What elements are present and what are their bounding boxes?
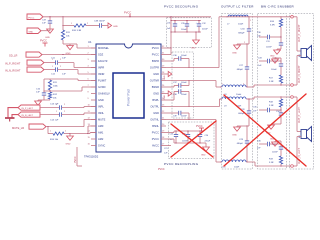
- svg-text:GND: GND: [232, 135, 237, 137]
- snubber cell 4 (above OUT_N_LEFT): [280, 165, 281, 166]
- speaker LS2: [301, 130, 307, 139]
- svg-text:100nF: 100nF: [182, 141, 188, 143]
- svg-text:1uF: 1uF: [36, 92, 40, 94]
- svg-text:GND: GND: [28, 31, 33, 33]
- ground (decoupling top): [195, 32, 197, 40]
- svg-text:GND: GND: [201, 155, 206, 157]
- svg-text:10uH: 10uH: [234, 167, 240, 169]
- wire OUTNL riser: [166, 119, 216, 121]
- speaker box: [290, 14, 314, 170]
- svg-text:100nF: 100nF: [181, 116, 187, 118]
- ground (snubber4): [274, 141, 276, 142]
- wire: [58, 69, 78, 71]
- wire: [44, 78, 78, 80]
- wire: [44, 69, 55, 71]
- svg-text:100nF: 100nF: [181, 82, 187, 84]
- wire: [297, 55, 301, 57]
- bootstrap cap box: [172, 52, 194, 118]
- inductor L10: [220, 161, 221, 162]
- wire: [38, 99, 50, 101]
- wire: [248, 17, 250, 29]
- svg-text:1uF: 1uF: [62, 58, 66, 60]
- svg-text:3.3R: 3.3R: [269, 105, 274, 107]
- inductor L7: [226, 16, 227, 17]
- resistor R12 20k: [48, 92, 51, 99]
- PVCC decoupling box (top): [167, 18, 212, 48]
- svg-text:GND: GND: [164, 75, 166, 80]
- wire PVCC rail: [63, 16, 211, 18]
- svg-text:PVCC: PVCC: [28, 17, 34, 19]
- svg-text:PVCC: PVCC: [158, 168, 165, 171]
- svg-text:PVCC: PVCC: [40, 40, 47, 43]
- PVCC decoupling box (bottom): [169, 122, 215, 159]
- node R10 junction: [62, 25, 63, 26]
- wire: [40, 114, 59, 116]
- ground (R14): [69, 134, 71, 136]
- ground (snubber3): [270, 124, 272, 125]
- capacitor C21 (AVCC): [166, 145, 171, 147]
- wire OUT_P_RIGHT: [222, 16, 249, 18]
- svg-text:IN_P_LEFT: IN_P_LEFT: [22, 108, 34, 110]
- wire OUTPL riser: [166, 106, 220, 108]
- wire: [62, 17, 64, 30]
- wire PVCC pins to decoupling: [166, 47, 171, 49]
- wire: [43, 16, 63, 18]
- svg-text:OUTPUT LC FILTER: OUTPUT LC FILTER: [221, 5, 254, 9]
- port GND (top-left): [27, 28, 41, 34]
- wire: [280, 27, 282, 43]
- svg-text:BW C-RC SNUBBER: BW C-RC SNUBBER: [261, 5, 295, 9]
- svg-text:OUT_N_RIGHT: OUT_N_RIGHT: [298, 65, 301, 83]
- wire: [62, 40, 64, 44]
- op-amp U1 TPA3116D2 body: [96, 44, 161, 152]
- svg-text:C13 1uF: C13 1uF: [50, 104, 59, 106]
- resistor R10: [74, 24, 86, 27]
- svg-text:PVCC DECOUPLING: PVCC DECOUPLING: [164, 162, 199, 166]
- svg-text:100nF: 100nF: [181, 55, 187, 57]
- svg-text:100nF: 100nF: [272, 152, 278, 154]
- ground (R11/MODSEL): [69, 44, 71, 46]
- ground (snubber1): [276, 49, 278, 50]
- wire OUT_N_LEFT: [247, 161, 255, 163]
- svg-text:C38 100nF: C38 100nF: [94, 21, 105, 23]
- wire SDZ: [42, 54, 96, 56]
- node terminal (P left): [291, 96, 294, 99]
- resistor R11: [61, 30, 64, 40]
- svg-text:680pF: 680pF: [238, 33, 245, 35]
- U1 power pad: [113, 73, 144, 118]
- node terminal (N right): [291, 84, 294, 87]
- port IN_N_LEFT: [18, 112, 40, 117]
- wire PLIMIT: [44, 90, 82, 92]
- wire PVCC (vertical net label): [76, 147, 78, 166]
- capacitor C28: [248, 99, 250, 111]
- wire MUTE: [46, 126, 84, 128]
- svg-text:3.3R: 3.3R: [270, 25, 275, 27]
- svg-text:100nF: 100nF: [181, 29, 187, 31]
- wire MODSEL: [76, 44, 78, 48]
- svg-text:220uF: 220uF: [205, 141, 211, 143]
- svg-text:GND: GND: [191, 48, 196, 50]
- svg-text:C14 1uF: C14 1uF: [50, 120, 59, 122]
- svg-text:GND: GND: [164, 95, 166, 100]
- wire: [63, 25, 74, 27]
- speaker LS1: [301, 49, 307, 58]
- svg-text:R14 10k: R14 10k: [50, 139, 59, 141]
- svg-text:3.3R: 3.3R: [269, 162, 274, 164]
- wire: [102, 25, 108, 27]
- wire OUT_P_LEFT: [247, 98, 254, 100]
- svg-text:1uF: 1uF: [62, 74, 66, 76]
- ground (LC left ch): [236, 126, 238, 127]
- svg-text:10uH: 10uH: [238, 24, 244, 26]
- ground (decoupling bottom): [204, 142, 206, 144]
- U1 right pins: [161, 47, 166, 49]
- inductor L8: [220, 86, 221, 87]
- resistor R14: [53, 132, 64, 135]
- crossed out mark X2: [224, 95, 306, 166]
- svg-text:IN_N_LEFT: IN_N_LEFT: [22, 115, 34, 117]
- ground (snubber2): [274, 58, 276, 59]
- wire: [280, 45, 282, 49]
- svg-text:PVCC DECOUPLING: PVCC DECOUPLING: [164, 5, 199, 9]
- wire: [62, 114, 84, 116]
- svg-text:680pF: 680pF: [237, 143, 244, 145]
- port PVCC (top-left): [27, 14, 43, 20]
- svg-text:GND: GND: [270, 56, 275, 58]
- wire OUTNR riser: [166, 80, 216, 82]
- svg-text:Power Pad: Power Pad: [127, 89, 131, 106]
- svg-text:220uF: 220uF: [202, 29, 208, 31]
- wire AM0: [70, 133, 88, 135]
- wire: [58, 62, 74, 64]
- crossed out mark X1: [171, 124, 213, 157]
- ground (right GND pin, sideways): [166, 73, 168, 75]
- capacitor C27: [246, 43, 247, 44]
- wire input joint: [8, 108, 18, 118]
- svg-text:3.3R: 3.3R: [269, 81, 274, 83]
- node terminal (N left): [291, 165, 294, 168]
- ground (C37): [47, 29, 54, 33]
- wire: [40, 107, 59, 109]
- wire: [62, 107, 84, 109]
- snubber cell 2 (above OUT_N_RIGHT): [280, 84, 281, 85]
- resistor R16: [280, 16, 281, 17]
- inductor L9: [220, 98, 221, 99]
- wire: [293, 16, 297, 18]
- svg-text:PVCC: PVCC: [74, 156, 77, 163]
- svg-text:100nF: 100nF: [266, 47, 272, 49]
- node PVCC rail junction: [62, 16, 63, 17]
- resistor R11b 100k: [48, 80, 51, 90]
- svg-text:GND: GND: [66, 144, 71, 146]
- wire decoupling loop (bottom): [174, 130, 204, 132]
- svg-text:GND: GND: [113, 26, 118, 28]
- wire OUTPR to LC filter: [166, 67, 219, 69]
- svg-text:680pF: 680pF: [237, 69, 244, 71]
- ground (PLIMIT): [37, 100, 39, 101]
- node terminal (P right): [291, 15, 294, 18]
- svg-text:R10 3.3R: R10 3.3R: [72, 30, 82, 32]
- svg-text:OUT_P_LEFT: OUT_P_LEFT: [298, 107, 301, 123]
- ground (C38, sideways): [108, 23, 112, 28]
- ground (right GND pin 2, sideways): [166, 93, 168, 95]
- svg-text:OUT_P_RIGHT: OUT_P_RIGHT: [298, 24, 301, 42]
- wire: [41, 30, 50, 32]
- U1 left pins: [91, 47, 96, 49]
- port IN_P_LEFT: [18, 105, 40, 110]
- snubber cell 3 (below OUT_P_LEFT): [280, 96, 281, 97]
- svg-text:100nF: 100nF: [271, 69, 277, 71]
- output LC filter box: [222, 14, 253, 170]
- wire PVCC pins (bottom): [166, 132, 174, 134]
- wire AM1: [88, 133, 90, 135]
- ground (LC right ch): [237, 43, 247, 45]
- wire: [47, 127, 49, 134]
- svg-text:GND: GND: [45, 37, 50, 39]
- snubber box: [258, 14, 287, 170]
- wire: [44, 62, 55, 64]
- svg-text:10uH: 10uH: [236, 94, 242, 96]
- svg-text:GND: GND: [232, 53, 237, 55]
- wire: [297, 136, 301, 138]
- wire decoupling loop: [171, 20, 201, 22]
- wire: [248, 31, 250, 44]
- svg-text:1uF: 1uF: [42, 23, 46, 25]
- wire OUT_N_RIGHT: [247, 86, 254, 88]
- svg-text:U1: U1: [88, 40, 92, 44]
- capacitor C29: [246, 125, 247, 126]
- wire: [293, 96, 297, 98]
- svg-text:100nF: 100nF: [181, 94, 187, 96]
